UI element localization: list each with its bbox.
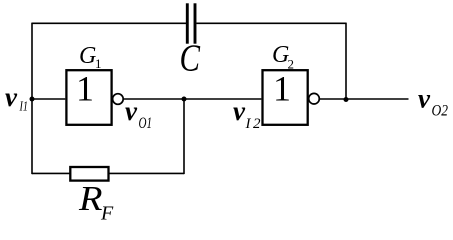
svg-text:R: R: [78, 179, 103, 218]
svg-text:O2: O2: [432, 103, 449, 120]
svg-text:C: C: [180, 38, 201, 80]
svg-text:1: 1: [273, 69, 291, 109]
svg-text:1: 1: [95, 56, 102, 71]
svg-text:v: v: [5, 82, 18, 112]
svg-text:1: 1: [76, 69, 94, 109]
svg-text:I1: I1: [19, 100, 28, 115]
svg-text:F: F: [100, 203, 114, 225]
svg-text:v: v: [125, 96, 138, 126]
svg-text:v: v: [418, 84, 431, 114]
svg-text:2: 2: [288, 56, 295, 71]
svg-text:v: v: [233, 96, 246, 126]
svg-text:O1: O1: [139, 115, 153, 132]
svg-text:G: G: [79, 43, 96, 69]
svg-text:I2: I2: [245, 116, 262, 132]
